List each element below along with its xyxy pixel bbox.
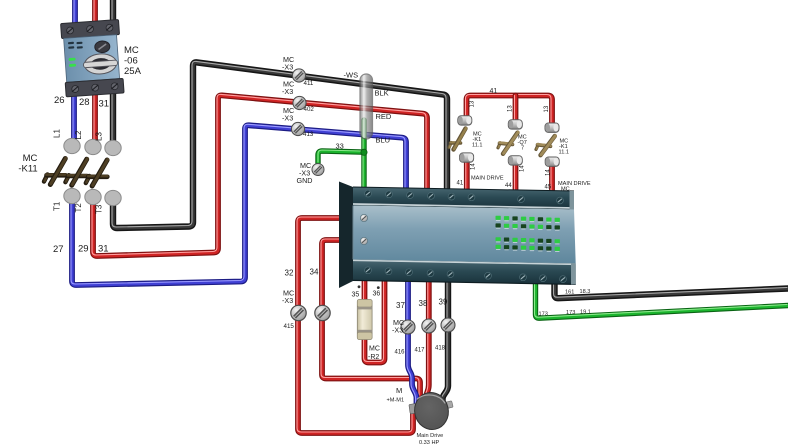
svg-text:28: 28	[79, 97, 90, 108]
svg-text:13: 13	[470, 100, 476, 107]
PLC bottom strip	[353, 259, 576, 284]
svg-text:29: 29	[78, 244, 89, 255]
PLC left side face	[339, 182, 353, 289]
wire 28 red breaker to contactor L2	[94, 88, 95, 147]
wire 41 to PLC	[466, 160, 467, 194]
fuse MC-R2	[357, 300, 372, 340]
svg-text:13: 13	[544, 105, 550, 112]
svg-text:14: 14	[471, 163, 477, 170]
wire 38 red PLC to motor	[425, 276, 429, 403]
terminal MC-X3 417	[422, 319, 436, 333]
svg-text:39: 39	[439, 298, 448, 307]
breaker MC-06	[61, 20, 124, 97]
svg-text:MC: MC	[23, 153, 38, 164]
svg-text:413: 413	[303, 131, 314, 138]
svg-text:26: 26	[54, 95, 65, 106]
svg-text:41: 41	[490, 88, 498, 95]
svg-text:-R2: -R2	[368, 354, 379, 361]
wire 31 black breaker to contactor L3	[112, 88, 113, 148]
svg-text:-06: -06	[124, 56, 138, 67]
svg-text:-X3: -X3	[282, 87, 293, 96]
svg-text:34: 34	[310, 268, 319, 277]
wire 44 drop middle from rail	[515, 96, 516, 121]
svg-text:411: 411	[304, 80, 314, 87]
terminal MC-X3 418	[441, 318, 455, 332]
label terminal GND	[297, 161, 313, 185]
svg-text:-WS: -WS	[344, 71, 359, 80]
wire 39 black PLC to motor	[442, 276, 449, 406]
wire 31b black T3 loop to terminal 411 and PLC	[112, 61, 447, 228]
svg-text:31: 31	[98, 244, 109, 255]
terminal MC-X3 413	[291, 122, 304, 135]
svg-text:-X3: -X3	[282, 114, 293, 123]
aux contact MC-K1 bottom cylinder 1	[460, 153, 474, 162]
svg-text:BLU: BLU	[376, 136, 391, 145]
label motor Main Drive	[417, 433, 444, 444]
wire green cable into PLC	[363, 120, 364, 190]
label aux3 MAIN DRIVE MC	[558, 181, 591, 193]
svg-text:14: 14	[546, 169, 552, 176]
aux contact MC-K1 top cylinder 1	[458, 116, 472, 125]
contactor MC-K11 blade 1	[44, 158, 66, 185]
label wire 161 18.3	[565, 289, 590, 296]
svg-text:25A: 25A	[124, 66, 142, 77]
aux contact MC-K1 top cylinder 3	[545, 123, 559, 132]
svg-text:T3: T3	[95, 204, 104, 214]
aux contact MC-Q7 blade 2	[498, 132, 518, 154]
label breaker MC-06 25A	[124, 45, 142, 77]
label wire 173 19.1	[566, 310, 591, 317]
svg-text:GND: GND	[297, 176, 313, 185]
PLC top strip screws	[365, 190, 564, 204]
wire 173 green PLC to right edge	[535, 275, 788, 318]
svg-text:-X3: -X3	[392, 326, 403, 335]
svg-text:416: 416	[395, 350, 406, 356]
wire L1 supply blue top	[74, 0, 75, 31]
svg-text:T2: T2	[74, 203, 83, 213]
wire 45 to PLC	[551, 164, 552, 196]
terminal MC-X3 415 left	[291, 305, 306, 320]
svg-text:44: 44	[505, 183, 512, 189]
svg-text:417: 417	[415, 348, 426, 354]
contactor MC-K11 blade 2	[65, 159, 87, 186]
svg-text:T1: T1	[53, 201, 62, 211]
svg-text:M: M	[396, 386, 402, 395]
svg-text:38: 38	[419, 299, 428, 308]
aux contact MC-K1 blade 3	[536, 136, 555, 156]
svg-text:27: 27	[53, 244, 64, 255]
wire 27 blue T1 loop to terminal 413 and PLC	[71, 124, 406, 285]
svg-text:45: 45	[545, 185, 552, 191]
contactor MC-K11 terminal T1	[64, 188, 80, 203]
svg-text:MC: MC	[124, 45, 139, 56]
aux contact MC-Q7 bottom cylinder 2	[508, 156, 522, 165]
label terminal 416	[392, 318, 405, 356]
label terminal 411	[282, 55, 314, 87]
svg-text:-X3: -X3	[282, 63, 293, 72]
terminal MC-X3 GND	[312, 163, 324, 175]
svg-text:37: 37	[396, 301, 405, 310]
svg-text:31: 31	[99, 99, 110, 110]
cable sheath -WS	[360, 74, 373, 139]
svg-text:L3: L3	[95, 132, 104, 141]
label aux2 MC-Q7	[518, 135, 527, 152]
PLC body	[353, 206, 576, 264]
svg-text:19.1: 19.1	[580, 310, 591, 316]
svg-text:MC: MC	[369, 346, 380, 353]
contactor MC-K11 terminal T2	[85, 189, 101, 204]
contactor MC-K11 terminal T3	[105, 190, 121, 205]
svg-text:11.1: 11.1	[559, 150, 569, 156]
svg-text:MC: MC	[561, 187, 570, 193]
contactor MC-K11 terminal L2	[85, 139, 101, 154]
wire 33 green ground wire with junction	[318, 150, 364, 163]
terminal MC-X3 411	[292, 69, 305, 82]
svg-text:L1: L1	[53, 129, 62, 138]
contactor MC-K11 terminal L1	[64, 138, 80, 153]
svg-text:161: 161	[565, 290, 574, 296]
svg-text:7: 7	[521, 146, 524, 152]
svg-text:-X3: -X3	[282, 296, 293, 305]
svg-text:-K11: -K11	[18, 164, 37, 175]
svg-text:33: 33	[336, 142, 344, 151]
svg-text:13: 13	[508, 105, 514, 112]
label terminal 415	[282, 289, 294, 331]
svg-text:L2: L2	[74, 130, 83, 139]
svg-text:36: 36	[373, 291, 381, 298]
svg-text:11.1: 11.1	[472, 143, 482, 149]
svg-text:0.33 HP: 0.33 HP	[419, 440, 439, 444]
svg-text:Main Drive: Main Drive	[417, 433, 444, 439]
label motor M	[387, 386, 405, 404]
label fuse MC-R2	[368, 346, 380, 362]
aux contact MC-Q7 top cylinder 2	[508, 120, 522, 129]
svg-text:173: 173	[566, 310, 575, 316]
motor M +M-M1	[409, 389, 453, 432]
svg-text:14: 14	[520, 165, 526, 172]
terminal MC-X3 416	[401, 320, 415, 334]
wire 29 red T2 loop to terminal 402 and PLC	[92, 94, 427, 256]
svg-text:MAIN DRIVE: MAIN DRIVE	[471, 176, 504, 182]
wire 32 red PLC left to motor bottom	[297, 217, 413, 433]
terminal MC-X3 415 right	[315, 305, 330, 320]
wire 37 blue PLC to motor with jog	[407, 276, 417, 405]
wire L3 supply black top	[112, 0, 113, 27]
label contactor MC-K11	[18, 153, 37, 175]
svg-text:41: 41	[457, 181, 464, 187]
svg-text:32: 32	[285, 269, 294, 278]
wire 36 red fuse return to PLC	[364, 275, 385, 363]
svg-text:415: 415	[284, 323, 295, 330]
label wire 36	[373, 286, 381, 297]
svg-text:RED: RED	[376, 112, 392, 121]
svg-text:402: 402	[304, 106, 315, 113]
contactor MC-K11 terminal L3	[105, 140, 121, 155]
label terminal 413	[282, 106, 314, 138]
svg-text:35: 35	[352, 292, 360, 299]
wire 34 red PLC left to motor top	[321, 239, 420, 396]
wire 26 blue breaker to contactor L1	[73, 88, 74, 146]
svg-text:173: 173	[539, 312, 548, 318]
svg-text:18.3: 18.3	[580, 289, 591, 295]
wire 44 to PLC	[515, 163, 516, 195]
svg-text:BLK: BLK	[375, 89, 389, 98]
PLC LED block	[496, 216, 560, 252]
svg-text:+M-M1: +M-M1	[387, 398, 405, 404]
wire 35 red PLC to fuse	[364, 276, 365, 305]
PLC top strip	[353, 187, 574, 210]
label aux1 MC-K1 11.1	[472, 132, 482, 149]
PLC bottom strip screws	[365, 267, 567, 283]
terminal MC-X3 402	[293, 96, 306, 109]
PLC body screws	[360, 214, 367, 244]
label terminal 402	[282, 80, 314, 114]
node green junction	[361, 149, 367, 155]
wire 41 red rail with three drops	[466, 95, 553, 124]
wire 161 black PLC to right edge	[554, 275, 788, 298]
wire L2 supply red top	[94, 0, 95, 29]
aux contact MC-K1 blade 1	[449, 128, 466, 149]
svg-text:418: 418	[435, 346, 446, 352]
aux contact MC-K1 bottom cylinder 3	[545, 157, 559, 166]
contactor MC-K11 blade 3	[86, 160, 108, 187]
label aux3 MC-K1 11.1	[559, 139, 569, 156]
label wire 35	[352, 285, 361, 298]
